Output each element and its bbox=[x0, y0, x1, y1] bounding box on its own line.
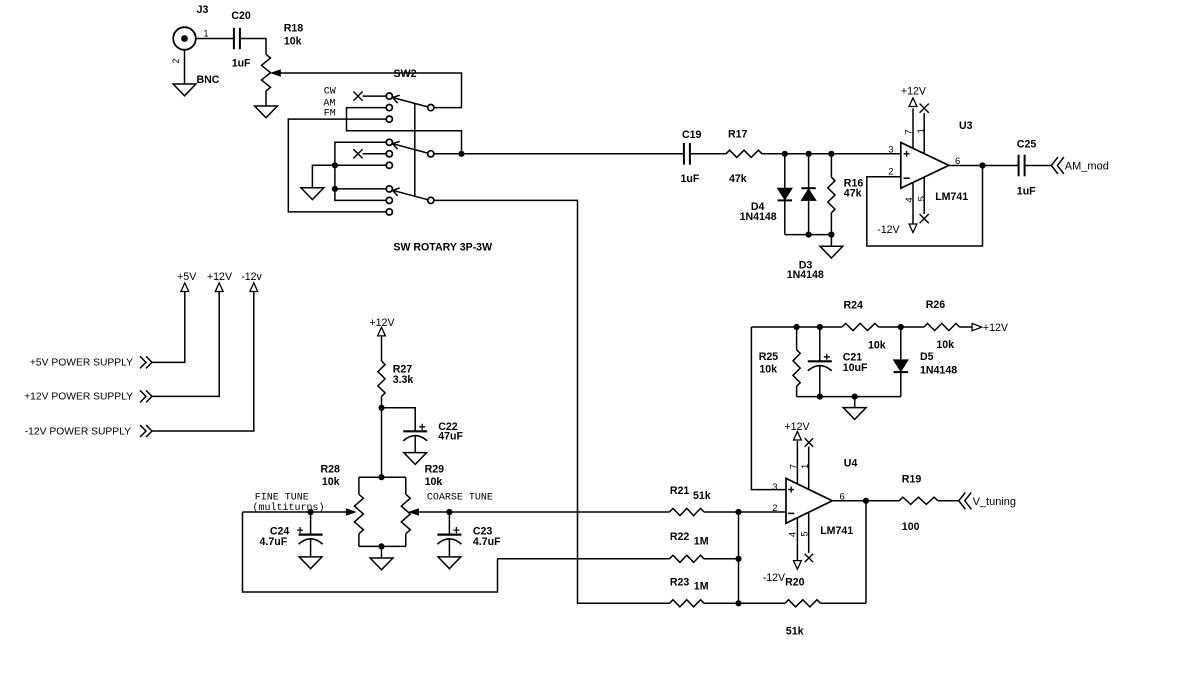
ground under diode clamp bbox=[820, 246, 843, 258]
svg-text:SW ROTARY 3P-3W: SW ROTARY 3P-3W bbox=[393, 242, 492, 254]
svg-text:C19: C19 bbox=[682, 129, 702, 141]
junction C24 tap bbox=[308, 509, 314, 515]
wire D4 cathode bbox=[784, 201, 786, 235]
svg-text:FINE TUNE: FINE TUNE bbox=[255, 492, 309, 503]
capacitor C20 bbox=[234, 28, 240, 50]
svg-text:2: 2 bbox=[888, 167, 893, 178]
resistor R22 bbox=[670, 555, 705, 562]
junction pot top rail bbox=[378, 474, 384, 480]
svg-text:3: 3 bbox=[772, 482, 777, 493]
junction R23 to bus bbox=[735, 600, 741, 606]
wire C24 top lead bbox=[310, 512, 312, 535]
ground at SW2 bbox=[301, 188, 324, 200]
wire C19 to R17 bbox=[690, 153, 726, 155]
wire R18 wiper to SW2 pole1 common bbox=[274, 73, 462, 108]
ground under pots bbox=[370, 558, 393, 570]
U3 pin4 wire bbox=[912, 183, 914, 224]
svg-text:1uF: 1uF bbox=[681, 173, 700, 185]
svg-text:1M: 1M bbox=[694, 536, 709, 548]
U3 output wire bbox=[949, 165, 1019, 167]
no-connect X at pole1 CW bbox=[353, 92, 362, 101]
svg-text:(multiturns): (multiturns) bbox=[253, 502, 325, 514]
wire D5 top lead bbox=[900, 327, 902, 360]
ground under C24 bbox=[299, 557, 322, 569]
svg-text:D5: D5 bbox=[920, 351, 934, 363]
svg-text:10k: 10k bbox=[936, 339, 954, 351]
wire pole1 CW stub bbox=[363, 95, 387, 97]
port chevron +12V supply bbox=[140, 390, 152, 402]
wire pole3 common to R23 row bbox=[434, 200, 669, 603]
junction D3 bottom bbox=[806, 232, 812, 238]
junction R16 bottom bbox=[828, 232, 834, 238]
svg-text:+12V: +12V bbox=[901, 86, 927, 98]
port chevron -12V supply bbox=[140, 425, 152, 437]
port chevron +5V supply bbox=[140, 356, 152, 368]
svg-text:+12V: +12V bbox=[369, 317, 395, 329]
svg-text:4.7uF: 4.7uF bbox=[260, 536, 288, 548]
ground under C21 block bbox=[843, 408, 866, 420]
wire C24 to ground bbox=[310, 539, 312, 557]
junction U3 output feedback bbox=[979, 162, 985, 168]
svg-text:47k: 47k bbox=[844, 188, 862, 200]
wire D3 anode bbox=[808, 201, 810, 235]
no-connect X at U3 pin5 bbox=[920, 214, 929, 223]
resistor R19 bbox=[899, 497, 938, 504]
wire pole2 contact3 to ground bbox=[312, 165, 386, 188]
svg-text:-12V POWER SUPPLY: -12V POWER SUPPLY bbox=[25, 427, 131, 438]
wire D5 bottom lead bbox=[900, 373, 902, 397]
SW2 pole2 common bbox=[428, 151, 434, 157]
SW2 pole3 contact 2 bbox=[386, 197, 392, 203]
wire +12V to R27 bbox=[381, 336, 383, 361]
svg-text:47uF: 47uF bbox=[438, 430, 463, 442]
junction U4 output bbox=[863, 498, 869, 504]
svg-text:4: 4 bbox=[788, 532, 799, 537]
wire R26 to +12V port bbox=[960, 326, 973, 328]
U4 pin1 wire bbox=[808, 447, 810, 490]
svg-text:C20: C20 bbox=[231, 10, 251, 22]
fine tune wire bbox=[243, 511, 348, 513]
U3 pin7 wire bbox=[912, 108, 914, 148]
junction ground stem bbox=[852, 394, 858, 400]
SW2 pole1 contact FM bbox=[386, 116, 392, 122]
capacitor C23 bbox=[437, 533, 461, 535]
wire pole3 contact1 stub bbox=[335, 188, 386, 190]
junction pole3 contact1 wire bbox=[332, 186, 338, 192]
svg-text:10k: 10k bbox=[425, 476, 443, 488]
-12V power arrow at U4 pin4 bbox=[794, 561, 802, 570]
R18 wiper arrow bbox=[272, 70, 281, 76]
wire pole1 FM to pole3 contact bbox=[288, 119, 386, 212]
wire R20 to output bbox=[821, 602, 867, 604]
wire C22 to ground bbox=[414, 436, 416, 453]
capacitor C22 bbox=[403, 430, 427, 432]
svg-text:BNC: BNC bbox=[197, 74, 220, 86]
wire pole1 AM to output junction bbox=[347, 108, 462, 154]
+5V power arrow bbox=[181, 283, 189, 292]
+12V power arrow at U3 pin7 bbox=[909, 98, 917, 107]
wire coarse tune to R21 bbox=[413, 511, 670, 513]
U3 plus marker bbox=[904, 151, 910, 157]
svg-text:7: 7 bbox=[788, 464, 799, 469]
svg-text:1N4148: 1N4148 bbox=[920, 365, 957, 377]
wire bus to R20 bbox=[739, 602, 786, 604]
wire +12V rail top left bbox=[751, 326, 842, 328]
svg-text:R29: R29 bbox=[425, 464, 445, 476]
wire R19 to V_tuning port bbox=[938, 500, 959, 502]
wire SW2 to C19 bbox=[462, 153, 684, 155]
inverting input bus bbox=[738, 512, 740, 603]
wire D4 anode bbox=[784, 154, 786, 188]
U4 plus marker bbox=[788, 487, 794, 493]
U4 output wire bbox=[832, 500, 899, 502]
svg-text:+5V: +5V bbox=[177, 271, 197, 283]
svg-text:R23: R23 bbox=[670, 576, 690, 588]
wire +12V supply bbox=[152, 292, 219, 397]
svg-text:1uF: 1uF bbox=[232, 58, 251, 70]
svg-text:10k: 10k bbox=[759, 363, 777, 375]
svg-text:U4: U4 bbox=[844, 458, 858, 470]
svg-text:J3: J3 bbox=[197, 4, 209, 16]
resistor R16 bbox=[828, 177, 835, 213]
wire R27 to pot top bbox=[381, 397, 383, 478]
wire R23 to bus bbox=[704, 602, 739, 604]
wire pole2 common to junction bbox=[434, 153, 461, 155]
U3 pin2 wire and feedback loop bbox=[867, 166, 983, 247]
op-amp U3 bbox=[901, 143, 949, 189]
wire C23 top lead bbox=[448, 512, 450, 535]
wire C23 to ground bbox=[448, 539, 450, 557]
resistor R17 bbox=[726, 150, 762, 157]
potentiometer R18 bbox=[262, 54, 271, 91]
op-amp U4 bbox=[786, 478, 832, 523]
svg-text:5: 5 bbox=[800, 531, 811, 536]
svg-text:R19: R19 bbox=[902, 474, 922, 486]
svg-text:47k: 47k bbox=[729, 173, 747, 185]
capacitor C24 bbox=[299, 533, 323, 535]
junction pot bottom bbox=[378, 543, 384, 549]
capacitor C25 bbox=[1019, 155, 1025, 177]
wire R22 to bus bbox=[704, 558, 739, 560]
+12V power arrow above R27 bbox=[378, 327, 386, 336]
U3 pin5 wire bbox=[923, 177, 925, 214]
R29 top lead bbox=[405, 477, 407, 494]
svg-text:3: 3 bbox=[888, 144, 893, 155]
SW2 pole1 contact AM bbox=[386, 105, 392, 111]
svg-text:2: 2 bbox=[171, 58, 181, 63]
resistor R25 bbox=[793, 350, 800, 387]
wire +5V supply bbox=[152, 292, 185, 363]
svg-text:SW2: SW2 bbox=[394, 68, 417, 80]
junction R21 to bus bbox=[735, 509, 741, 515]
svg-text:10k: 10k bbox=[868, 340, 886, 352]
wire R16 bottom lead bbox=[830, 213, 832, 235]
svg-text:10uF: 10uF bbox=[843, 362, 868, 374]
svg-text:+5V POWER SUPPLY: +5V POWER SUPPLY bbox=[30, 358, 133, 369]
junction C23 tap bbox=[446, 509, 452, 515]
svg-text:+12V POWER SUPPLY: +12V POWER SUPPLY bbox=[24, 392, 133, 403]
SW2 pole2 contact 3 bbox=[386, 162, 392, 168]
resistor R20 bbox=[785, 600, 821, 607]
SW2 pole1 arm bbox=[393, 95, 428, 107]
svg-text:R26: R26 bbox=[926, 299, 946, 311]
resistor R23 bbox=[670, 600, 705, 607]
wire R17 to U3 +input bbox=[762, 153, 901, 155]
svg-text:R28: R28 bbox=[321, 464, 341, 476]
wire bottom rail of R25 block bbox=[797, 396, 901, 398]
svg-text:R24: R24 bbox=[844, 300, 864, 312]
ground under C23 bbox=[438, 557, 461, 569]
wire C21 top lead bbox=[819, 327, 821, 361]
ground under C22 bbox=[404, 453, 427, 465]
R29 bottom lead bbox=[405, 534, 407, 547]
svg-text:AM_mod: AM_mod bbox=[1065, 160, 1109, 172]
wire J3 pin2 down bbox=[184, 50, 186, 84]
junction D3 top bbox=[806, 151, 812, 157]
svg-text:C25: C25 bbox=[1017, 138, 1037, 150]
ground at J3 bbox=[173, 84, 196, 96]
U4 pin7 wire bbox=[796, 441, 798, 484]
wire R21 to U4 -input bbox=[704, 511, 739, 513]
SW2 pole2 contact 2 bbox=[386, 151, 392, 157]
svg-text:1N4148: 1N4148 bbox=[740, 211, 777, 223]
svg-text:1N4148: 1N4148 bbox=[787, 269, 824, 281]
svg-text:COARSE TUNE: COARSE TUNE bbox=[427, 492, 493, 503]
junction at SW2 output bbox=[458, 151, 464, 157]
svg-text:100: 100 bbox=[902, 521, 920, 533]
wire rail to U4 +input bbox=[751, 327, 786, 490]
-12V power arrow bbox=[250, 283, 258, 292]
U4 pin4 wire bbox=[796, 518, 798, 561]
svg-text:-12v: -12v bbox=[241, 271, 262, 283]
no-connect X at U4 pin1 bbox=[805, 438, 813, 446]
wire R16 top lead bbox=[830, 154, 832, 177]
SW2 pole1 contact CW bbox=[386, 93, 392, 99]
diode D4 bbox=[778, 188, 792, 200]
R28 bottom lead bbox=[358, 534, 360, 547]
diode D3 bbox=[801, 187, 815, 189]
junction R25 top bbox=[794, 324, 800, 330]
svg-text:51k: 51k bbox=[786, 626, 804, 638]
SW2 pole3 contact 1 bbox=[386, 186, 392, 192]
R29 wiper arrow bbox=[410, 509, 419, 515]
resistor R24 bbox=[842, 323, 879, 330]
svg-text:+12V: +12V bbox=[983, 322, 1009, 334]
wire rail to ground bbox=[830, 235, 832, 247]
wire U4 output to R20 row bbox=[865, 501, 867, 604]
svg-text:R17: R17 bbox=[728, 128, 748, 140]
-12V power arrow at U3 pin4 bbox=[909, 224, 917, 233]
svg-text:+12V: +12V bbox=[207, 271, 233, 283]
SW2 pole3 contact 3 bbox=[386, 209, 392, 215]
wire rail to ground stem bbox=[854, 397, 856, 408]
SW2 pole1 common bbox=[428, 105, 434, 111]
port chevron AM_mod bbox=[1051, 157, 1064, 174]
svg-text:V_tuning: V_tuning bbox=[973, 496, 1016, 508]
+12V power arrow left bbox=[215, 283, 223, 292]
wire R22 left leg bbox=[243, 512, 498, 592]
wire C21 bottom lead bbox=[819, 366, 821, 397]
svg-text:+12V: +12V bbox=[785, 421, 811, 433]
svg-text:10k: 10k bbox=[322, 476, 340, 488]
svg-text:1uF: 1uF bbox=[1017, 185, 1036, 197]
svg-text:R22: R22 bbox=[670, 531, 690, 543]
resistor R27 bbox=[378, 361, 385, 397]
SW2 pole3 common bbox=[428, 197, 434, 203]
junction C22 tap bbox=[378, 405, 384, 411]
wire -12V supply bbox=[152, 292, 254, 432]
wire C20 to R18 bbox=[240, 39, 266, 55]
svg-text:-12V: -12V bbox=[763, 572, 786, 584]
no-connect X at U3 pin1 bbox=[920, 104, 929, 113]
junction C21 top bbox=[817, 324, 823, 330]
U3 pin1 wire bbox=[923, 113, 925, 154]
svg-text:1M: 1M bbox=[694, 581, 709, 593]
wire D3 cathode bbox=[808, 154, 810, 188]
wire rail between R24 and R26 bbox=[879, 326, 925, 328]
svg-text:1: 1 bbox=[800, 464, 811, 469]
SW2 pole2 arm bbox=[393, 141, 428, 153]
svg-text:3.3k: 3.3k bbox=[393, 374, 414, 386]
svg-text:R18: R18 bbox=[284, 23, 304, 35]
SW2 pole3 arm bbox=[393, 188, 428, 200]
SW2 pole2 contact 1 bbox=[386, 139, 392, 145]
svg-text:-12V: -12V bbox=[877, 224, 900, 236]
pot top rail bbox=[359, 476, 406, 478]
svg-text:LM741: LM741 bbox=[820, 525, 853, 537]
wire R25 top lead bbox=[796, 327, 798, 350]
U4 minus marker bbox=[788, 512, 794, 514]
svg-text:1: 1 bbox=[916, 128, 927, 133]
junction pole2 contact3 wire bbox=[332, 162, 338, 168]
no-connect X at U4 pin5 bbox=[805, 554, 813, 562]
potentiometer R29 bbox=[401, 494, 410, 534]
junction C21 bottom bbox=[817, 394, 823, 400]
junction D4 top bbox=[782, 151, 788, 157]
svg-text:10k: 10k bbox=[284, 36, 302, 48]
svg-text:R20: R20 bbox=[785, 576, 805, 588]
potentiometer R28 bbox=[354, 494, 363, 534]
R28 top lead bbox=[358, 477, 360, 494]
wire diode bottom rail bbox=[785, 234, 832, 236]
resistor R21 bbox=[670, 508, 705, 515]
junction R22 to bus bbox=[735, 556, 741, 562]
svg-text:5: 5 bbox=[916, 196, 927, 201]
svg-text:R21: R21 bbox=[670, 485, 690, 497]
diode D5 bbox=[894, 360, 908, 372]
junction R16 top bbox=[828, 151, 834, 157]
U3 minus marker bbox=[904, 177, 910, 179]
wire R22 row left bbox=[498, 558, 670, 560]
capacitor C19 bbox=[684, 143, 690, 165]
SW2 mechanical link bbox=[414, 103, 416, 196]
svg-text:LM741: LM741 bbox=[935, 191, 968, 203]
junction D5 top bbox=[898, 324, 904, 330]
pot bottom rail bbox=[359, 545, 406, 547]
port chevron V_tuning bbox=[959, 492, 972, 509]
capacitor C21 bbox=[808, 360, 832, 362]
U4 pin2 wire bbox=[739, 511, 787, 513]
svg-text:4: 4 bbox=[904, 197, 915, 202]
wire R25 bottom lead bbox=[796, 386, 798, 396]
wire R18 bottom to ground bbox=[265, 91, 267, 106]
svg-text:51k: 51k bbox=[693, 490, 711, 502]
BNC connector J3 bbox=[173, 27, 196, 50]
resistor R26 bbox=[924, 323, 960, 330]
svg-text:R25: R25 bbox=[759, 351, 779, 363]
wire pole2 contact1 to pole3 contact2 bbox=[335, 142, 386, 200]
svg-text:CW: CW bbox=[324, 87, 336, 98]
+12V port arrow bbox=[972, 323, 982, 330]
no-connect X at pole2 contact2 bbox=[353, 149, 362, 158]
wire pole2 contact2 stub bbox=[363, 153, 387, 155]
svg-text:1: 1 bbox=[204, 29, 209, 39]
svg-text:7: 7 bbox=[904, 129, 915, 134]
svg-text:FM: FM bbox=[324, 109, 336, 120]
ground under R18 bbox=[255, 106, 278, 118]
pot bottom to ground bbox=[381, 546, 383, 558]
wire J3 pin1 to C20 bbox=[196, 38, 234, 40]
wire C25 to AM_mod port bbox=[1025, 165, 1052, 167]
svg-text:4.7uF: 4.7uF bbox=[473, 536, 501, 548]
U4 pin5 wire bbox=[808, 513, 810, 553]
wire to C22 bbox=[382, 408, 416, 432]
svg-text:U3: U3 bbox=[959, 120, 973, 132]
R28 wiper arrow bbox=[346, 509, 355, 515]
+12V power arrow at U4 pin7 bbox=[794, 431, 802, 440]
